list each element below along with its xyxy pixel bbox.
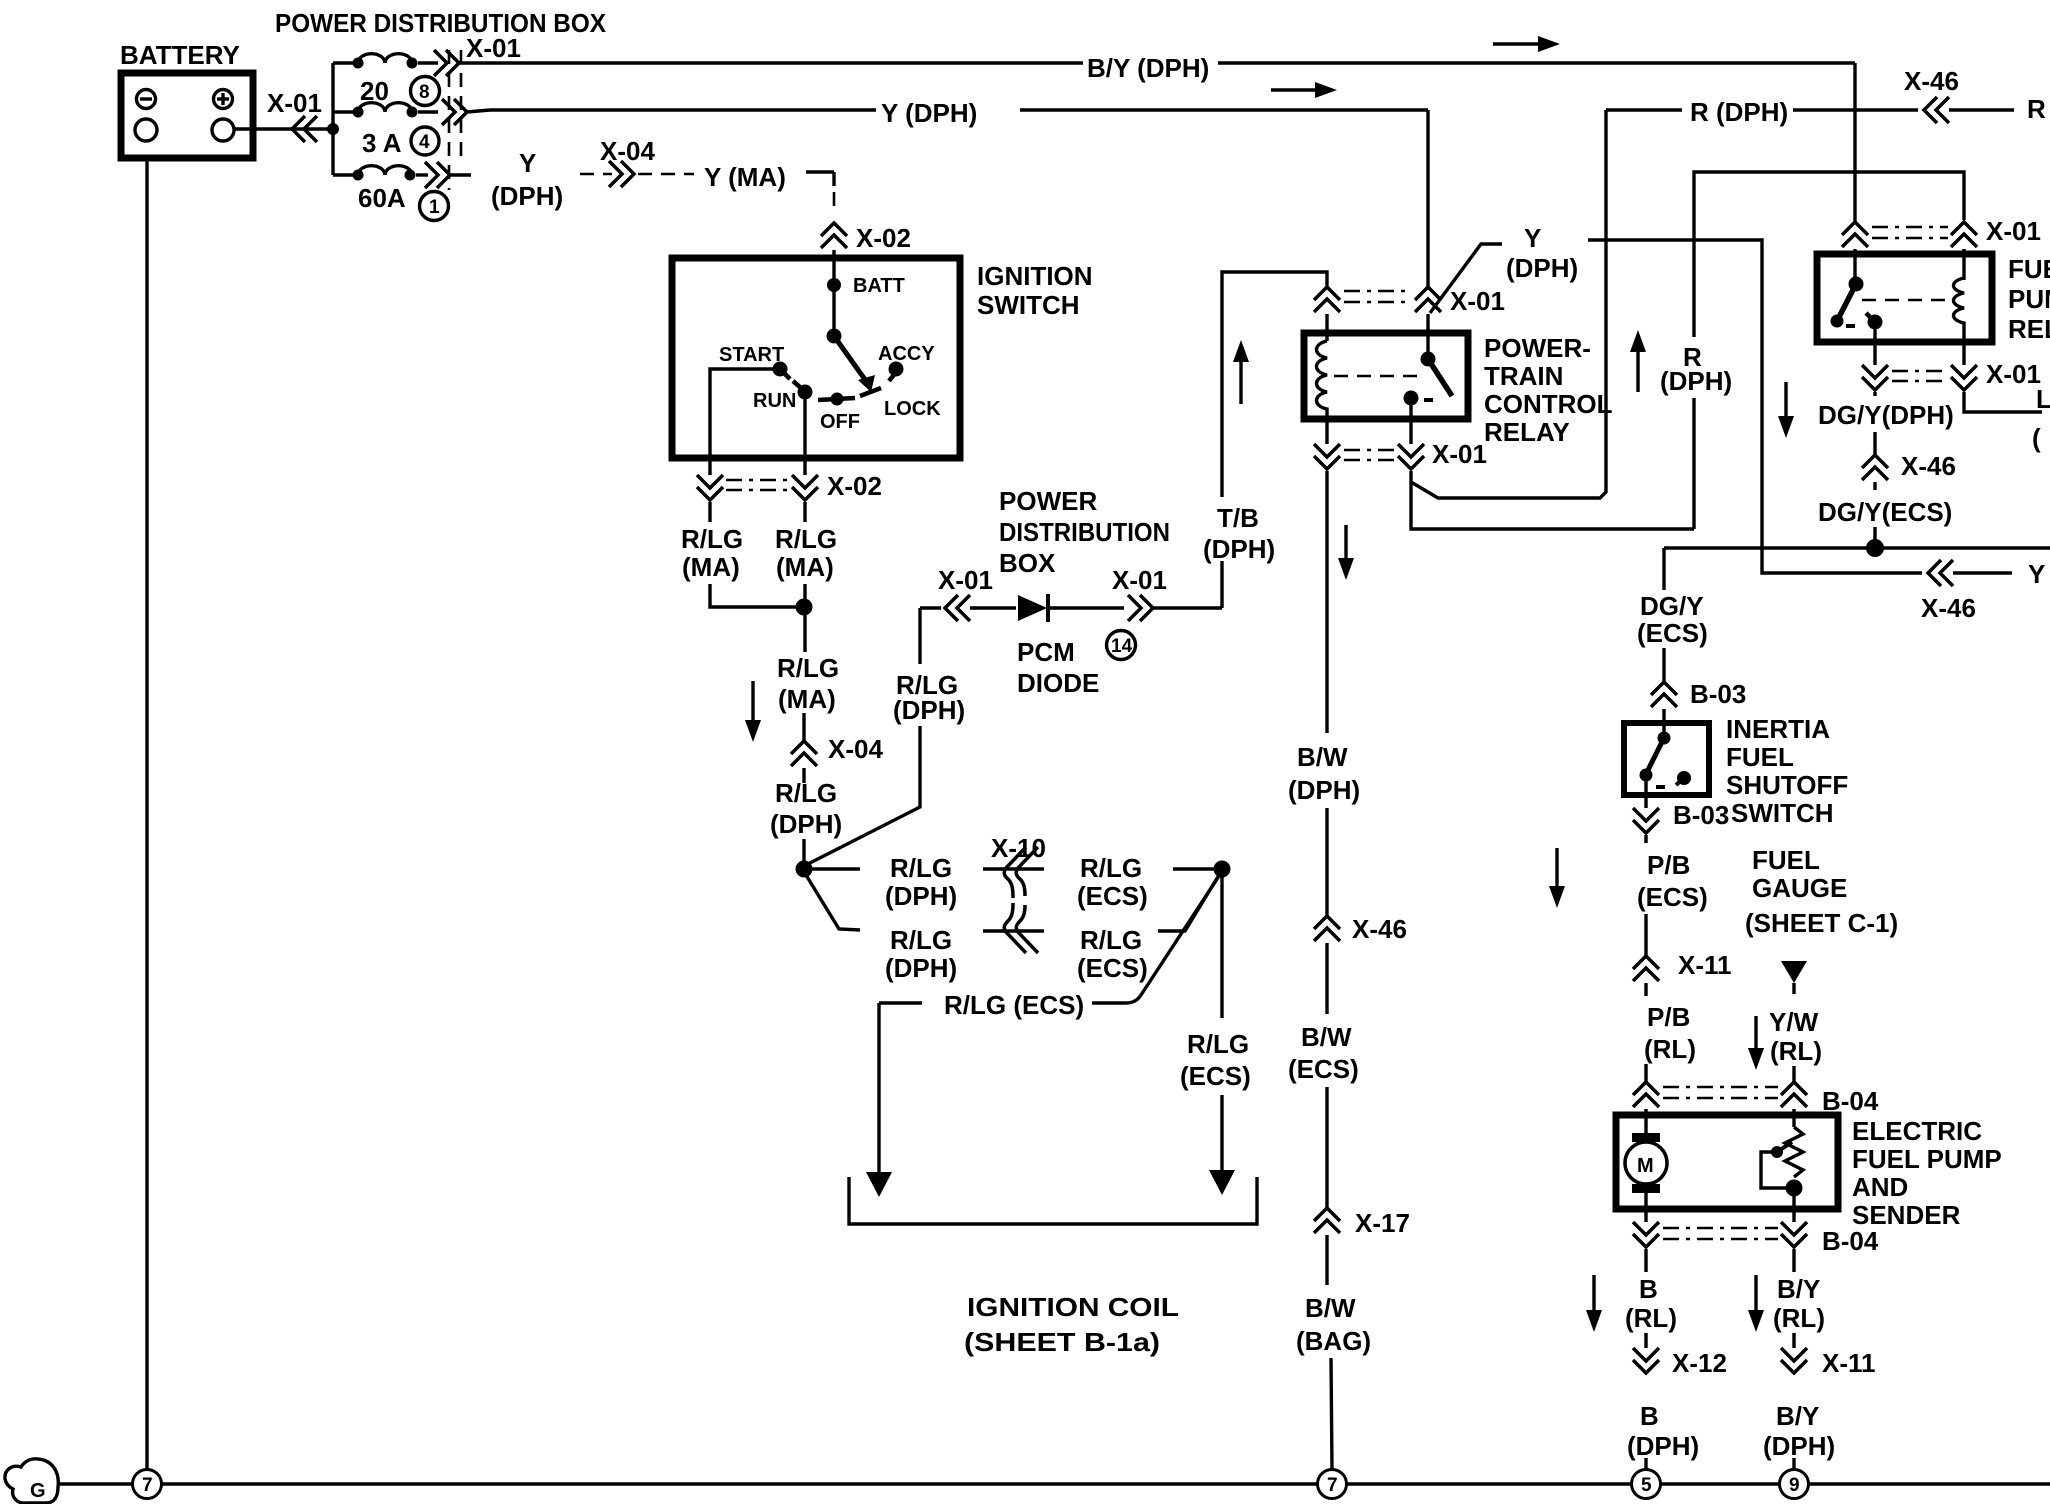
svg-text:(ECS): (ECS) [1637, 618, 1708, 648]
svg-text:FUEL: FUEL [1726, 742, 1794, 772]
connector X-10 [983, 833, 1046, 953]
fuse 60A no.1 [333, 166, 449, 221]
arrow down main column [745, 681, 761, 742]
label FUEL GAUGE (SHEET C-1) [1745, 845, 1898, 938]
ignition coil bracket [849, 1177, 1257, 1357]
svg-text:B: B [1640, 1401, 1659, 1431]
wire Y branch to X-46 [1588, 240, 1922, 573]
wire Y (MA) to ignition switch [806, 172, 834, 214]
svg-text:(RL): (RL) [1625, 1303, 1677, 1333]
svg-text:X-01: X-01 [1986, 359, 2041, 389]
label B/W (ECS) [1288, 1022, 1359, 1084]
svg-text:REL: REL [2008, 314, 2050, 344]
svg-text:R/LG: R/LG [681, 524, 743, 554]
svg-text:X-01: X-01 [466, 33, 521, 63]
connector X-46 on Y wire [1921, 559, 2045, 623]
svg-text:M: M [1637, 1155, 1654, 1177]
connector X-12 [1633, 1333, 1727, 1378]
wire Y/W to pump [1792, 1066, 1795, 1082]
svg-text:R/LG: R/LG [890, 853, 952, 883]
svg-text:14: 14 [1111, 636, 1133, 657]
switch arm ignition [827, 329, 876, 393]
svg-text:60A: 60A [358, 183, 406, 213]
diode PCM DIODE [1017, 594, 1124, 698]
svg-text:X-01: X-01 [1112, 565, 1167, 595]
svg-text:(MA): (MA) [776, 552, 834, 582]
wire row2 to dot3 [1158, 875, 1219, 931]
wire B/W (DPH) upper [1325, 471, 1328, 733]
connector X-02 above ignition switch [821, 223, 911, 283]
svg-text:R/LG: R/LG [775, 778, 837, 808]
svg-text:(MA): (MA) [778, 684, 836, 714]
wire B/Y (DPH) top horizontal [459, 53, 1855, 83]
wire DG/Y down to inertia switch [1637, 548, 1708, 682]
node DG/Y junction [1866, 539, 1884, 557]
svg-text:(RL): (RL) [1644, 1034, 1696, 1064]
ground symbol G [5, 1459, 58, 1503]
svg-text:(DPH): (DPH) [1627, 1431, 1699, 1461]
wire B/Y drop to fuel pump relay [1853, 63, 1856, 222]
svg-text:(DPH): (DPH) [893, 695, 965, 725]
svg-text:FUE: FUE [2008, 254, 2050, 284]
svg-text:B/Y (DPH): B/Y (DPH) [1087, 53, 1209, 83]
label P/B (RL) [1644, 1002, 1696, 1064]
svg-text:8: 8 [419, 82, 430, 103]
svg-text:X-04: X-04 [828, 734, 883, 764]
node junction dot3 [1214, 861, 1231, 878]
arrow up beside T/B [1233, 340, 1249, 404]
svg-text:7: 7 [1327, 1475, 1338, 1496]
svg-text:Y (DPH): Y (DPH) [881, 98, 977, 128]
svg-text:R/LG (ECS): R/LG (ECS) [944, 990, 1084, 1020]
ground node 7 left [133, 1470, 162, 1499]
svg-text:FUEL PUMP: FUEL PUMP [1852, 1144, 2002, 1174]
contact ACCY [878, 343, 935, 381]
connector X-46 on R wire [1904, 66, 2046, 124]
svg-text:B/W: B/W [1301, 1022, 1352, 1052]
connector B-03 below inertia switch [1633, 775, 1729, 843]
wire B/Y to ground node 9 [1792, 1458, 1795, 1469]
connector X-17 on B/W [1314, 1087, 1410, 1285]
label R/LG (DPH) diode branch [893, 670, 965, 725]
connector X-01 right of diode [1112, 565, 1222, 621]
svg-text:(DPH): (DPH) [770, 809, 842, 839]
wire battery positive feed [234, 127, 333, 130]
svg-text:ELECTRIC: ELECTRIC [1852, 1116, 1982, 1146]
svg-text:(DPH): (DPH) [1660, 366, 1732, 396]
svg-text:X-01: X-01 [1986, 216, 2041, 246]
connector X-01 battery chevrons [267, 88, 339, 142]
connector X-01 below powertrain relay [1314, 439, 1487, 469]
svg-text:X-17: X-17 [1355, 1208, 1410, 1238]
coil powertrain relay [1317, 341, 1328, 444]
connector X-01 left of diode [938, 565, 1016, 621]
connector X-11 bottom [1781, 1333, 1876, 1378]
connector X-02 below ignition switch [697, 471, 882, 522]
svg-text:L: L [2036, 384, 2050, 414]
connector chevrons fuse row3 [416, 162, 471, 188]
svg-text:POWER DISTRIBUTION BOX: POWER DISTRIBUTION BOX [275, 8, 607, 38]
wire B/Y (RL) [1792, 1249, 1795, 1272]
svg-text:X-02: X-02 [856, 223, 911, 253]
svg-text:R/LG: R/LG [777, 653, 839, 683]
svg-text:ACCY: ACCY [878, 343, 935, 365]
battery BATTERY [120, 40, 253, 158]
node junction dot2 [796, 861, 813, 878]
svg-text:Y: Y [1524, 223, 1541, 253]
wire B to ground node 5 [1644, 1458, 1647, 1469]
motor M fuel pump [1625, 1116, 1667, 1222]
connector X-04 main column [791, 713, 883, 783]
wire B (RL) [1644, 1249, 1647, 1272]
switch INERTIA FUEL SHUTOFF SWITCH [1624, 714, 1848, 828]
relay POWER-TRAIN CONTROL RELAY box [1304, 333, 1613, 447]
svg-text:START: START [719, 344, 784, 366]
label Y (DPH) with leader [1430, 223, 1578, 313]
svg-text:IGNITION COIL: IGNITION COIL [967, 1292, 1179, 1322]
label R/LG (DPH) row2 [885, 925, 957, 983]
svg-text:BOX: BOX [999, 548, 1056, 578]
wire X-10 row2 from dot2 [806, 875, 860, 930]
node BATT ignition switch [827, 275, 905, 336]
svg-text:B/W: B/W [1297, 742, 1348, 772]
ignition switch box [672, 258, 1093, 458]
svg-text:4: 4 [419, 132, 430, 153]
svg-text:RUN: RUN [753, 390, 796, 412]
svg-text:SWITCH: SWITCH [1731, 798, 1834, 828]
arrow right on B/Y wire [1493, 36, 1560, 52]
label B/Y (RL) [1773, 1274, 1825, 1333]
label P/B (ECS) [1637, 850, 1708, 912]
svg-text:R/LG: R/LG [1080, 853, 1142, 883]
svg-text:AND: AND [1852, 1172, 1908, 1202]
svg-text:(ECS): (ECS) [1077, 953, 1148, 983]
wire battery negative to ground [145, 160, 148, 1469]
svg-text:TRAIN: TRAIN [1484, 361, 1563, 391]
svg-text:DISTRIBUTION: DISTRIBUTION [999, 517, 1170, 547]
svg-text:(RL): (RL) [1773, 1303, 1825, 1333]
svg-text:5: 5 [1641, 1475, 1652, 1496]
arrow down beside P/B (ECS) [1549, 848, 1565, 908]
svg-text:POWER: POWER [999, 486, 1097, 516]
wire P/B to pump [1644, 1064, 1647, 1082]
arrow up beside R riser [1630, 330, 1646, 392]
svg-text:X-46: X-46 [1921, 593, 1976, 623]
svg-text:X-01: X-01 [938, 565, 993, 595]
wire right leg down through junction [803, 584, 806, 652]
svg-text:T/B: T/B [1217, 503, 1259, 533]
label B/W (BAG) [1296, 1293, 1371, 1356]
switch powertrain relay [1404, 352, 1453, 445]
svg-text:R (DPH): R (DPH) [1690, 97, 1788, 127]
label R/LG (MA) main column [777, 653, 839, 714]
wire DG/Y junction horizontal [1664, 546, 2050, 549]
label R/LG (DPH) row1 [885, 853, 957, 911]
svg-text:X-01: X-01 [267, 88, 322, 118]
arrow down beside B/W [1338, 525, 1354, 580]
label R (DPH) riser [1660, 342, 1732, 396]
wire fuel pump relay coil return off page [1964, 384, 2050, 453]
svg-text:X-01: X-01 [1450, 286, 1505, 316]
svg-text:SHUTOFF: SHUTOFF [1726, 770, 1848, 800]
ground node 9 [1780, 1470, 1809, 1499]
connector X-46 on B/W [1314, 808, 1407, 1014]
svg-text:(DPH): (DPH) [1763, 1431, 1835, 1461]
svg-text:SWITCH: SWITCH [977, 290, 1080, 320]
svg-text:G: G [30, 1480, 46, 1502]
label R/LG (ECS) row1 [1077, 853, 1148, 911]
ground node 7 middle [1318, 1470, 1347, 1499]
svg-text:P/B: P/B [1647, 1002, 1690, 1032]
svg-text:P/B: P/B [1647, 850, 1690, 880]
arrow down beside B (RL) [1586, 1275, 1602, 1332]
wire R (DPH) riser B to fuel pump relay coil [1694, 172, 1964, 529]
svg-text:X-12: X-12 [1672, 1348, 1727, 1378]
dashed link powertrain relay [1334, 375, 1420, 378]
svg-text:(: ( [2032, 423, 2041, 453]
svg-text:FUEL: FUEL [1752, 845, 1820, 875]
svg-text:B/Y: B/Y [1777, 1274, 1820, 1304]
wire T/B (DPH) riser [1222, 272, 1327, 608]
svg-text:B: B [1639, 1274, 1658, 1304]
wire X-10 row1 from dot2 [812, 867, 860, 870]
label B/Y (DPH) [1763, 1401, 1835, 1461]
label R/LG (MA) left leg [681, 524, 743, 582]
wire row1 to dot3 [1173, 867, 1215, 870]
switch fuel pump relay [1831, 277, 1883, 366]
svg-text:(DPH): (DPH) [885, 881, 957, 911]
svg-text:B-03: B-03 [1690, 679, 1746, 709]
wire DG/Y to junction [1873, 527, 1876, 548]
svg-text:3 A: 3 A [362, 128, 402, 158]
svg-text:(DPH): (DPH) [1203, 534, 1275, 564]
wire to junction dot2 [802, 839, 805, 869]
svg-text:(DPH): (DPH) [885, 953, 957, 983]
label POWER DISTRIBUTION BOX lower [999, 486, 1170, 578]
connector X-01 below fuel pump relay [1862, 359, 2041, 390]
svg-text:DG/Y: DG/Y [1640, 591, 1704, 621]
svg-text:(DPH): (DPH) [1288, 775, 1360, 805]
svg-text:Y/W: Y/W [1769, 1007, 1819, 1037]
label R/LG (ECS) row2 [1077, 925, 1148, 983]
wire RUN leg [803, 392, 806, 475]
connector B-03 above inertia switch [1651, 679, 1746, 738]
svg-text:IGNITION: IGNITION [977, 261, 1093, 291]
wire Y (DPH) second horizontal [467, 98, 1428, 128]
connector X-01 above powertrain relay [1314, 286, 1505, 357]
label Y (DPH) fuse row3 [491, 148, 563, 211]
svg-text:X-02: X-02 [827, 471, 882, 501]
svg-text:PCM: PCM [1017, 637, 1075, 667]
svg-text:9: 9 [1789, 1475, 1800, 1496]
svg-text:Y: Y [2028, 559, 2045, 589]
svg-text:X-46: X-46 [1352, 914, 1407, 944]
connector X-01 fuse outputs dashed boundary [449, 33, 521, 190]
svg-text:(MA): (MA) [682, 552, 740, 582]
svg-text:LOCK: LOCK [884, 398, 941, 420]
svg-text:B/W: B/W [1305, 1293, 1356, 1323]
label B (DPH) [1627, 1401, 1699, 1461]
wire B/W to ground node 7 [1331, 1358, 1332, 1469]
wire Y (DPH) drop to powertrain relay [1426, 110, 1429, 287]
fuse 3A no.4 [333, 103, 439, 158]
svg-text:CONTROL: CONTROL [1484, 389, 1613, 419]
connector X-11 on P/B [1633, 914, 1732, 996]
svg-text:POWER-: POWER- [1484, 333, 1591, 363]
svg-text:(BAG): (BAG) [1296, 1326, 1371, 1356]
svg-text:X-11: X-11 [1822, 1348, 1876, 1378]
node fuel gauge feed triangle [1781, 961, 1807, 994]
arrow down beside Y/W [1748, 1016, 1764, 1070]
svg-text:(DPH): (DPH) [1506, 253, 1578, 283]
svg-text:PUM: PUM [2008, 284, 2050, 314]
arrow down beside DG/Y [1778, 382, 1794, 438]
ground node 5 [1632, 1470, 1661, 1499]
ground bus line [58, 1482, 2050, 1485]
svg-text:INERTIA: INERTIA [1726, 714, 1830, 744]
label T/B (DPH) [1203, 503, 1275, 564]
svg-text:X-46: X-46 [1901, 451, 1956, 481]
svg-text:(SHEET C-1): (SHEET C-1) [1745, 908, 1898, 938]
connector X-01 above fuel pump relay [1842, 216, 2041, 284]
wire R/LG (DPH) branch to PCM diode [804, 608, 941, 866]
svg-text:DG/Y(ECS): DG/Y(ECS) [1818, 497, 1952, 527]
part number circled 14 [1107, 631, 1136, 660]
svg-text:B-04: B-04 [1822, 1226, 1879, 1256]
node junction R/LG [796, 599, 813, 616]
svg-text:(ECS): (ECS) [1637, 882, 1708, 912]
connector chevrons fuse row2 [418, 99, 467, 125]
svg-text:DIODE: DIODE [1017, 668, 1099, 698]
svg-text:(RL): (RL) [1770, 1036, 1822, 1066]
svg-text:GAUGE: GAUGE [1752, 873, 1847, 903]
svg-text:B-03: B-03 [1673, 800, 1729, 830]
connector X-46 on DG/Y [1862, 432, 1956, 490]
svg-text:R/LG: R/LG [1080, 925, 1142, 955]
contact OFF [818, 393, 860, 434]
wire left leg down to junction [710, 584, 797, 607]
svg-text:X-46: X-46 [1904, 66, 1959, 96]
fuse 20A no.8 [333, 54, 440, 106]
wire START leg [710, 369, 773, 475]
wire fuse bus vertical [331, 63, 334, 175]
label R/LG (DPH) main column [770, 778, 842, 839]
label DG/Y(DPH) [1818, 392, 1954, 430]
label B/W (DPH) [1288, 742, 1360, 805]
arrow right on Y wire [1271, 82, 1337, 98]
contact START [719, 344, 790, 379]
connector X-04 dashed arrow [580, 136, 694, 187]
wire R (DPH) horizontal top [1606, 97, 1918, 127]
svg-text:RELAY: RELAY [1484, 417, 1570, 447]
dashed link fuel pump relay [1862, 299, 1952, 302]
svg-text:(ECS): (ECS) [1180, 1061, 1251, 1091]
svg-text:B/Y: B/Y [1776, 1401, 1819, 1431]
box ELECTRIC FUEL PUMP AND SENDER [1616, 1115, 2002, 1230]
arrow down beside B/Y (RL) [1748, 1275, 1764, 1332]
svg-text:Y (MA): Y (MA) [704, 162, 786, 192]
connector B-04 above pump [1633, 1082, 1879, 1116]
sender resistor and wiper [1761, 1116, 1803, 1222]
svg-text:1: 1 [429, 197, 440, 218]
svg-text:(DPH): (DPH) [491, 181, 563, 211]
connector B-04 below pump [1633, 1222, 1879, 1256]
svg-text:Y: Y [519, 148, 536, 178]
relay FUEL PUMP RELAY box [1817, 254, 2050, 344]
svg-text:R/LG: R/LG [890, 925, 952, 955]
label B (RL) [1625, 1274, 1677, 1333]
svg-text:BATT: BATT [853, 275, 905, 297]
svg-text:(ECS): (ECS) [1288, 1054, 1359, 1084]
wire powertrain relay output lower branch [1411, 482, 1694, 529]
svg-text:(ECS): (ECS) [1077, 881, 1148, 911]
svg-text:X-11: X-11 [1678, 950, 1732, 980]
wire powertrain relay output to riser A [1411, 110, 1606, 498]
coil fuel pump relay [1954, 278, 1965, 365]
contact LOCK [860, 388, 941, 420]
svg-text:R: R [2027, 94, 2046, 124]
svg-text:X-01: X-01 [1432, 439, 1487, 469]
wire left drop to ignition coil [866, 1003, 892, 1197]
svg-text:R/LG: R/LG [775, 524, 837, 554]
label Y/W (RL) [1769, 1007, 1822, 1066]
svg-text:7: 7 [142, 1475, 153, 1496]
svg-text:BATTERY: BATTERY [120, 40, 240, 70]
svg-text:R/LG: R/LG [1187, 1029, 1249, 1059]
contact RUN [753, 381, 813, 412]
svg-text:(SHEET B-1a): (SHEET B-1a) [964, 1327, 1160, 1357]
connector chevrons fuse row1 [418, 50, 459, 76]
wire R/LG (ECS) lower horizontal [879, 876, 1219, 1020]
svg-text:OFF: OFF [820, 411, 860, 433]
svg-text:DG/Y(DPH): DG/Y(DPH) [1818, 400, 1954, 430]
wire R/LG (ECS) right drop to ignition coil [1180, 877, 1251, 1195]
label R/LG (MA) right leg [775, 524, 837, 582]
svg-text:X-04: X-04 [600, 136, 655, 166]
